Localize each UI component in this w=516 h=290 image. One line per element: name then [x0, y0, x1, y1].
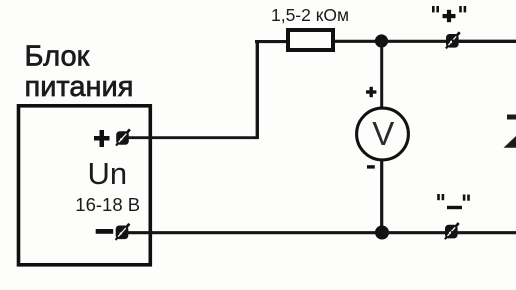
- wire: − output to bottom junction: [127, 231, 382, 234]
- svg-text:питания: питания: [25, 71, 134, 103]
- label: "+" (output plus, quoted): [432, 6, 466, 22]
- label: + (voltmeter plus): [366, 87, 376, 97]
- wire: vertical riser: [256, 40, 259, 139]
- wire: top junction to "+" terminal: [381, 40, 452, 43]
- junction: top node: [375, 34, 388, 47]
- wire: top junction down to voltmeter: [380, 41, 383, 108]
- wire: voltmeter to bottom junction: [380, 160, 383, 233]
- label: - (voltmeter minus): [367, 165, 375, 168]
- resistor R1 (1,5-2 кОм): [288, 30, 333, 50]
- diode VD (clipped at right edge): cathode bar: [507, 115, 516, 120]
- terminal: power supply + output: [116, 129, 130, 145]
- label: − (negative output sign): [96, 229, 114, 234]
- label: Блок питания: [25, 41, 134, 103]
- wire: "−" terminal to right edge: [451, 231, 516, 234]
- wire: + output to vertical riser: [128, 136, 258, 139]
- svg-text:Блок: Блок: [25, 41, 90, 73]
- voltmeter V1: [357, 108, 409, 160]
- svg-text:Un: Un: [87, 156, 127, 191]
- label: "−" (output minus, quoted): [437, 194, 470, 209]
- diode VD (clipped at right edge): anode triangle: [504, 136, 516, 148]
- wire: resistor to top junction: [334, 40, 382, 43]
- label: + (positive output sign): [94, 130, 110, 147]
- terminal: "+" output: [446, 32, 460, 48]
- power supply box: [19, 106, 151, 265]
- terminal: power supply − output: [116, 224, 130, 240]
- svg-text:16-18 В: 16-18 В: [75, 194, 140, 215]
- svg-text:V: V: [372, 115, 394, 152]
- wire: "+" terminal to right edge: [452, 40, 516, 43]
- wire: riser to resistor: [255, 40, 288, 43]
- svg-text:1,5-2 кОм: 1,5-2 кОм: [271, 5, 349, 25]
- wire: bottom junction to "−" terminal: [382, 231, 451, 234]
- terminal: "−" output: [445, 223, 459, 239]
- junction: bottom node: [375, 226, 389, 240]
